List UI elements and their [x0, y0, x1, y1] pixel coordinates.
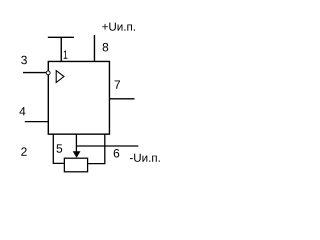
pin 1 wire: [60, 37, 62, 61]
wire to -U supply: [76, 145, 138, 147]
op-amp IC body DA1: [48, 61, 109, 134]
pin 5 wire: [53, 134, 64, 163]
pin 7 wire: [109, 98, 134, 100]
-U supply label -Uи.п.: [130, 154, 160, 162]
pin 3 wire: [23, 72, 46, 74]
pin label 1: [64, 50, 68, 58]
+U supply label +Uи.п.: [102, 23, 135, 31]
pin label 6: [114, 149, 120, 158]
pin label 8: [103, 43, 109, 52]
wiper leg wire: [75, 134, 77, 152]
pin 1 terminal bar: [48, 36, 74, 38]
pin label 5: [57, 144, 63, 152]
pin label 2: [21, 147, 26, 155]
pin label 3: [21, 56, 27, 65]
potentiometer R1 body: [64, 158, 87, 172]
pin 6 wire: [88, 134, 105, 163]
pin label 4: [19, 107, 25, 115]
pin 8 wire (+supply): [93, 35, 95, 61]
pin 3 inversion circle: [46, 71, 50, 75]
wiper arrowhead: [73, 151, 81, 158]
pin 4 wire: [25, 121, 49, 123]
pin label 7: [115, 80, 120, 88]
op-amp triangle symbol: [56, 71, 64, 83]
